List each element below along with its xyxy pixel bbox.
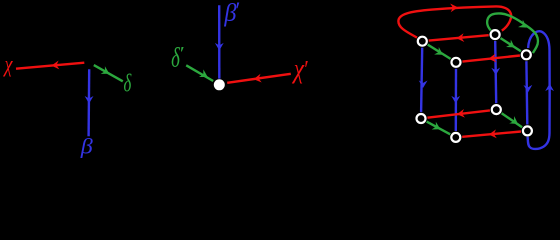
edge delta (green) <box>94 65 123 81</box>
svg-text:χ: χ <box>3 50 13 77</box>
vertex V1 <box>418 37 427 46</box>
label delta' <box>171 43 180 74</box>
green wrap edge V3 -> V4 (arc over top) <box>487 13 538 53</box>
edge chi' (red) <box>227 74 291 83</box>
red edge V4->V2 <box>462 56 520 62</box>
label delta <box>123 69 132 97</box>
svg-text:δ: δ <box>123 69 132 97</box>
red edge V3->V1 <box>429 35 489 40</box>
label chi <box>3 50 13 77</box>
vertex V7 <box>492 105 501 114</box>
vertex V2 <box>452 58 461 67</box>
svg-text:′: ′ <box>303 56 308 84</box>
red wrap edge V1 -> V3 (loop over top-left) <box>398 6 511 37</box>
label beta' <box>223 0 237 27</box>
blue edge V3->V7 <box>495 41 496 103</box>
blue edge V4->V8 <box>525 61 528 124</box>
vertex V4 <box>522 50 531 59</box>
edge delta' (green) <box>186 65 213 81</box>
green edge V5->V6 <box>427 122 451 135</box>
blue edge V2->V6 <box>455 69 458 131</box>
red edge V8->V6 <box>462 132 521 137</box>
blue edge V1->V5 <box>421 48 422 113</box>
blue wrap edge V8 -> V4 (loop around right side) <box>528 31 550 149</box>
green edge V1->V2 <box>428 45 451 59</box>
label chi' <box>291 53 305 84</box>
vertex V5 <box>417 114 426 123</box>
vertex V3 <box>491 30 500 39</box>
node (white disc) <box>214 79 225 90</box>
green edge V3->V4 <box>501 38 521 51</box>
red edge V7->V5 <box>427 110 490 117</box>
label beta <box>80 134 93 159</box>
vertex V6 <box>451 133 460 142</box>
green edge V7->V8 <box>502 113 522 127</box>
svg-text:′: ′ <box>179 44 184 64</box>
edge chi (red) <box>16 63 84 69</box>
edge beta' (blue) <box>218 5 221 78</box>
vertex V8 <box>523 126 532 135</box>
svg-text:β: β <box>80 134 93 159</box>
edge beta (blue) <box>87 69 90 136</box>
